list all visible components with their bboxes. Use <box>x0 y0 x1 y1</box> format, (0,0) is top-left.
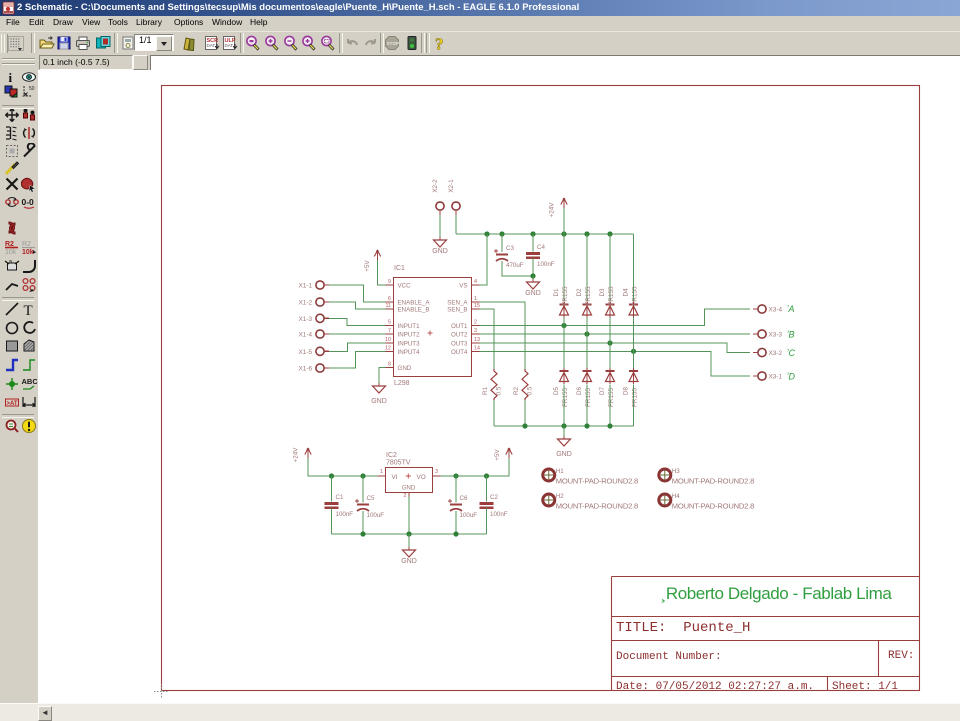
title block document number <box>616 651 722 663</box>
svg-text:D6: D6 <box>576 386 583 395</box>
wire R2 to rail <box>524 400 526 426</box>
svg-text:ʼD: ʼD <box>787 372 796 382</box>
pad X1-3 <box>316 314 329 322</box>
op-amp U1 IC1 L298 <box>385 265 480 387</box>
svg-text:+24V: +24V <box>549 202 556 218</box>
svg-text:FR155: FR155 <box>608 388 615 407</box>
junction c2-top <box>484 473 489 478</box>
svg-text:INPUT3: INPUT3 <box>398 341 421 348</box>
svg-text:X1-2: X1-2 <box>299 300 313 307</box>
svg-text:+5V: +5V <box>494 449 501 461</box>
svg-text:IC2: IC2 <box>386 452 397 459</box>
svg-text:GND: GND <box>525 290 541 297</box>
svg-text:10k: 10k <box>22 249 34 255</box>
label X3-2 <box>769 350 783 357</box>
title block REV <box>888 650 914 662</box>
svg-text:Sheet: 1/1: Sheet: 1/1 <box>832 681 898 693</box>
ground under X2-2 <box>432 237 448 255</box>
svg-text:100uF: 100uF <box>460 512 478 519</box>
wire D1 column upper <box>563 234 565 301</box>
svg-text:X3-2: X3-2 <box>769 350 783 357</box>
svg-text:SEN_A: SEN_A <box>447 300 468 307</box>
junction OUT2-D2 <box>584 331 589 336</box>
svg-text:3: 3 <box>474 328 477 334</box>
svg-text:9: 9 <box>388 279 391 285</box>
svg-text:Document Number:: Document Number: <box>616 651 722 663</box>
wire SEN_A to R2 <box>480 302 526 369</box>
svg-text:ENABLE_A: ENABLE_A <box>398 300 431 307</box>
wire +5V to VCC <box>378 260 386 285</box>
svg-text:10: 10 <box>385 337 391 343</box>
ground under C4 <box>525 279 541 297</box>
wire OUT3 net <box>480 343 751 353</box>
svg-text:100nF: 100nF <box>336 511 354 518</box>
junction c5-top <box>360 473 365 478</box>
svg-text:X1-1: X1-1 <box>299 283 313 290</box>
wire X1-2 to ENABLE_B <box>329 302 386 309</box>
wire C3 top <box>501 234 503 252</box>
mount pad H2 <box>543 493 638 511</box>
wire VO wire <box>441 458 510 476</box>
mount pad H4 <box>659 493 754 511</box>
label X1-6 <box>299 366 313 373</box>
svg-text:¸Roberto Delgado - Fablab Lima: ¸Roberto Delgado - Fablab Lima <box>661 584 893 603</box>
wire D4 column lower <box>633 318 635 352</box>
wire D2 column lower <box>586 318 588 335</box>
wire X1-5 to INPUT3 <box>329 343 386 351</box>
supply +24V arrow IC2 <box>293 447 312 463</box>
svg-text:VCC: VCC <box>398 283 412 290</box>
svg-text:100nF: 100nF <box>490 511 508 518</box>
junction gnd2-IC2 <box>406 531 411 536</box>
label X1-5 <box>299 349 313 356</box>
svg-text:X3-1: X3-1 <box>769 374 783 381</box>
svg-text:+5V: +5V <box>364 260 371 272</box>
junction gndrail-R2 <box>522 423 527 428</box>
svg-text:MOUNT-PAD-ROUND2.8: MOUNT-PAD-ROUND2.8 <box>672 502 754 511</box>
svg-text:INPUT2: INPUT2 <box>398 332 421 339</box>
pad X1-2 <box>316 298 329 306</box>
svg-text:GND: GND <box>398 365 412 372</box>
svg-text:D7: D7 <box>599 386 606 395</box>
svg-text:X1-6: X1-6 <box>299 366 313 373</box>
svg-text:D4: D4 <box>623 288 630 297</box>
rail corner to D4 <box>633 234 635 301</box>
supply +5V arrow IC1 <box>364 250 381 272</box>
svg-text:7805TV: 7805TV <box>386 460 411 467</box>
capacitor C2 <box>480 494 508 518</box>
svg-text:DAT: DAT <box>207 43 216 48</box>
pad X3-4 <box>753 305 766 313</box>
wire to GND C3C4 <box>532 276 534 281</box>
wire D4 column upper <box>633 234 635 301</box>
svg-text:X2-2: X2-2 <box>432 179 439 193</box>
junction gndrail-D5 <box>561 423 566 428</box>
svg-text:C3: C3 <box>506 245 514 252</box>
wire D1 column lower <box>563 318 565 326</box>
svg-text:1: 1 <box>380 469 383 475</box>
wire X1-1 to ENABLE_A <box>329 285 386 302</box>
title block date <box>616 681 814 693</box>
wire C4 top <box>532 234 534 252</box>
junction c1-top <box>329 473 334 478</box>
svg-text:0.5: 0.5 <box>496 386 503 395</box>
svg-text:5: 5 <box>388 320 391 326</box>
wire D5 column upper <box>563 326 565 369</box>
svg-text:GND: GND <box>401 558 417 565</box>
svg-text:H3: H3 <box>672 468 680 475</box>
net label B <box>787 330 795 340</box>
wire D8 column lower <box>633 385 635 427</box>
svg-text:X2-1: X2-1 <box>448 179 455 193</box>
label X2-1 <box>448 179 455 193</box>
svg-text:D2: D2 <box>576 288 583 297</box>
pad X3-2 <box>753 348 766 356</box>
junction rail-D1 <box>561 231 566 236</box>
svg-text:R2: R2 <box>513 386 520 395</box>
svg-text:TITLE: Puente_H: TITLE: Puente_H <box>616 620 750 636</box>
origin cross <box>154 684 168 698</box>
pad X1-5 <box>316 347 329 355</box>
supply +24V arrow <box>549 198 568 218</box>
capacitor C1 <box>325 494 354 518</box>
svg-text:C1: C1 <box>336 494 344 501</box>
svg-text:H4: H4 <box>672 493 680 500</box>
junction rail-C4 <box>530 231 535 236</box>
label X2-2 <box>432 179 439 193</box>
diode D8 <box>623 368 639 407</box>
svg-text:GND: GND <box>432 248 448 255</box>
svg-text:Date: 07/05/2012 02:27:27 a.m.: Date: 07/05/2012 02:27:27 a.m. <box>616 681 814 693</box>
svg-text:GND: GND <box>371 398 387 405</box>
capacitor C6 <box>448 495 477 519</box>
svg-text:X1-5: X1-5 <box>299 349 313 356</box>
capacitor C3 <box>494 245 524 269</box>
label X1-3 <box>299 316 313 323</box>
svg-text:4: 4 <box>474 279 477 285</box>
svg-text:FR155: FR155 <box>632 388 639 407</box>
wire OUT2 net <box>480 333 751 335</box>
svg-text:FR155: FR155 <box>585 388 592 407</box>
svg-text:MOUNT-PAD-ROUND2.8: MOUNT-PAD-ROUND2.8 <box>556 502 638 511</box>
wire C1 bottom <box>331 508 333 534</box>
svg-text:ABC: ABC <box>22 377 38 386</box>
svg-text:ENABLE_B: ENABLE_B <box>398 307 430 314</box>
svg-text:ʼA: ʼA <box>787 304 795 314</box>
svg-text:VI: VI <box>392 474 398 481</box>
mount pad H1 <box>543 468 638 486</box>
svg-text:470uF: 470uF <box>506 262 524 269</box>
svg-text:10k: 10k <box>5 249 17 255</box>
diode D1 <box>553 286 569 317</box>
diode D2 <box>576 286 592 317</box>
junction c6-top <box>453 473 458 478</box>
ground under diodes <box>556 436 572 458</box>
wire +24V rail <box>456 233 634 235</box>
svg-text:1: 1 <box>474 296 477 302</box>
pad X3-1 <box>753 372 766 380</box>
supply +5V arrow IC2 <box>494 448 512 461</box>
diode D6 <box>576 368 592 407</box>
svg-text:C6: C6 <box>460 495 468 502</box>
svg-text:VO: VO <box>417 474 426 481</box>
wire R1 to rail <box>493 400 495 426</box>
title block TITLE row <box>616 620 750 636</box>
svg-text:FR155: FR155 <box>632 286 639 305</box>
svg-text:SEN_B: SEN_B <box>447 307 467 314</box>
wire OUT4 net <box>480 351 751 376</box>
svg-text:GND: GND <box>402 486 416 492</box>
wire C3 bottom <box>502 261 533 276</box>
wire OUT1 net <box>480 309 751 326</box>
svg-text:C2: C2 <box>490 494 498 501</box>
junction rail-VS <box>484 231 489 236</box>
ground under IC2 <box>401 547 417 565</box>
wire X2-2 to GND <box>439 215 441 239</box>
svg-text:ʼC: ʼC <box>787 348 796 358</box>
wire C5 bottom <box>362 511 364 534</box>
svg-text:0-0: 0-0 <box>22 197 35 207</box>
title block lines <box>612 577 920 691</box>
svg-text:D1: D1 <box>553 288 560 297</box>
svg-text:MOUNT-PAD-ROUND2.8: MOUNT-PAD-ROUND2.8 <box>672 477 754 486</box>
svg-text:MOUNT-PAD-ROUND2.8: MOUNT-PAD-ROUND2.8 <box>556 477 638 486</box>
svg-text:>AT: >AT <box>7 400 18 406</box>
svg-text:2: 2 <box>474 320 477 326</box>
mount pad H3 <box>659 468 754 486</box>
svg-text:13: 13 <box>474 337 480 343</box>
svg-text:X1-3: X1-3 <box>299 316 313 323</box>
junction gndrail-D7 <box>607 423 612 428</box>
svg-text:8: 8 <box>388 362 391 368</box>
svg-text:2: 2 <box>404 493 407 499</box>
capacitor C5 <box>355 495 384 519</box>
svg-text:15: 15 <box>474 303 480 309</box>
wire D7 column upper <box>609 343 611 368</box>
svg-text:+24V: +24V <box>293 447 300 463</box>
svg-text:X1-4: X1-4 <box>299 332 313 339</box>
wire C2 top <box>486 476 488 502</box>
svg-text:STOP: STOP <box>387 41 399 46</box>
wire X1-4 to INPUT2 <box>329 333 386 335</box>
junction OUT4-D4 <box>631 349 636 354</box>
svg-text:12: 12 <box>385 345 391 351</box>
title block sheet <box>832 681 898 693</box>
svg-text:100uF: 100uF <box>367 512 385 519</box>
label X1-4 <box>299 332 313 339</box>
pad X2-1 <box>452 202 460 215</box>
svg-text:OUT2: OUT2 <box>451 332 468 339</box>
resistor R2 <box>513 369 534 400</box>
wire C4 bottom <box>532 258 534 276</box>
wire IC2 gnd to rail <box>408 497 410 535</box>
diode D3 <box>599 286 615 317</box>
junction OUT1-D1 <box>561 323 566 328</box>
wire SEN_B to R1 <box>480 309 495 369</box>
voltage regulator IC2 7805TV <box>378 452 441 499</box>
diode D4 <box>623 286 639 317</box>
junction gndrail-D6 <box>584 423 589 428</box>
junction gnd2-C6 <box>453 531 458 536</box>
svg-text:3: 3 <box>435 469 438 475</box>
svg-text:C5: C5 <box>367 495 375 502</box>
wire gnd stem IC2 <box>408 534 410 549</box>
svg-text:X3-3: X3-3 <box>769 332 783 339</box>
svg-text:GND: GND <box>556 451 572 458</box>
svg-text:50: 50 <box>29 86 35 92</box>
wire C2 bottom <box>486 508 488 534</box>
svg-text:R2: R2 <box>22 241 31 248</box>
wire X2-1 to +24V rail <box>455 215 457 234</box>
svg-text:REV:: REV: <box>888 650 914 662</box>
wire +24V stem <box>563 208 565 234</box>
wire D2 column upper <box>586 234 588 301</box>
junction rail-C3 <box>499 231 504 236</box>
wire GND rail <box>494 425 634 427</box>
wire +24V to VI <box>308 458 378 476</box>
title block author text <box>661 584 893 603</box>
pad X1-4 <box>316 330 329 338</box>
wire X1-6 to INPUT4 <box>329 351 386 368</box>
diode D5 <box>553 368 569 407</box>
wire IC2 GND rail <box>332 533 487 535</box>
pad X1-6 <box>316 364 329 372</box>
pad X2-2 <box>436 202 444 215</box>
wire VS to rail <box>480 234 488 285</box>
label X3-1 <box>769 374 783 381</box>
junction C3-C4 gnd <box>530 273 535 278</box>
ground under IC1 <box>371 383 387 405</box>
svg-text:C4: C4 <box>537 244 545 251</box>
svg-text:DAT: DAT <box>225 43 234 48</box>
svg-text:X3-4: X3-4 <box>769 307 783 314</box>
wire X1-3 to INPUT1 <box>329 318 386 325</box>
svg-text:L298: L298 <box>394 380 410 387</box>
svg-text:FR155: FR155 <box>608 286 615 305</box>
svg-text:FR155: FR155 <box>585 286 592 305</box>
svg-text:INPUT1: INPUT1 <box>398 323 421 330</box>
junction rail-D3 <box>607 231 612 236</box>
svg-text:11: 11 <box>386 303 392 309</box>
svg-text:D3: D3 <box>599 288 606 297</box>
svg-text:0.5: 0.5 <box>527 386 534 395</box>
label X1-1 <box>299 283 313 290</box>
label X3-3 <box>769 332 783 339</box>
pad X1-1 <box>316 281 329 289</box>
svg-text:R1: R1 <box>482 386 489 395</box>
svg-text:?: ? <box>435 35 444 51</box>
wire D6 column upper <box>586 334 588 368</box>
svg-text:ʼB: ʼB <box>787 330 795 340</box>
svg-text:H1: H1 <box>556 468 564 475</box>
pad X3-3 <box>753 330 766 338</box>
svg-text:IC1: IC1 <box>394 265 405 272</box>
net label A <box>787 304 795 314</box>
svg-text:D5: D5 <box>553 386 560 395</box>
svg-text:7: 7 <box>388 328 391 334</box>
svg-text:14: 14 <box>474 345 480 351</box>
svg-text:FR155: FR155 <box>562 388 569 407</box>
svg-text:INPUT4: INPUT4 <box>398 349 421 356</box>
junction OUT3-D3 <box>607 340 612 345</box>
net label C <box>787 348 796 358</box>
resistor R1 <box>482 369 503 400</box>
wire C5 top <box>362 476 364 503</box>
wire C6 top <box>455 476 457 503</box>
svg-text:OUT1: OUT1 <box>451 323 468 330</box>
svg-text:H2: H2 <box>556 493 564 500</box>
wire D6 column lower <box>586 385 588 427</box>
svg-text:OUT3: OUT3 <box>451 341 468 348</box>
wire D3 column lower <box>609 318 611 344</box>
wire D8 column upper <box>633 351 635 368</box>
svg-text:VS: VS <box>459 283 467 290</box>
wire D7 column lower <box>609 385 611 427</box>
svg-text:6: 6 <box>388 296 391 302</box>
svg-text:100nF: 100nF <box>537 261 555 268</box>
svg-text:i: i <box>9 70 13 85</box>
diode D7 <box>599 368 615 407</box>
junction gnd2-C5 <box>360 531 365 536</box>
svg-text:FR155: FR155 <box>562 286 569 305</box>
junction rail-D2 <box>584 231 589 236</box>
wire D3 column upper <box>609 234 611 301</box>
wire C6 bottom <box>455 511 457 534</box>
label X3-4 <box>769 307 783 314</box>
wire D5 column lower <box>563 385 565 427</box>
net label D <box>787 372 796 382</box>
svg-text:D8: D8 <box>623 386 630 395</box>
svg-text:OUT4: OUT4 <box>451 349 468 356</box>
frame border <box>162 86 920 691</box>
svg-text:T: T <box>24 303 33 317</box>
wire IC1 GND wire <box>379 368 386 386</box>
wire C1 top <box>331 476 333 502</box>
wire gnd stem diodes <box>563 426 565 438</box>
label X1-2 <box>299 300 313 307</box>
capacitor C4 <box>526 244 555 268</box>
